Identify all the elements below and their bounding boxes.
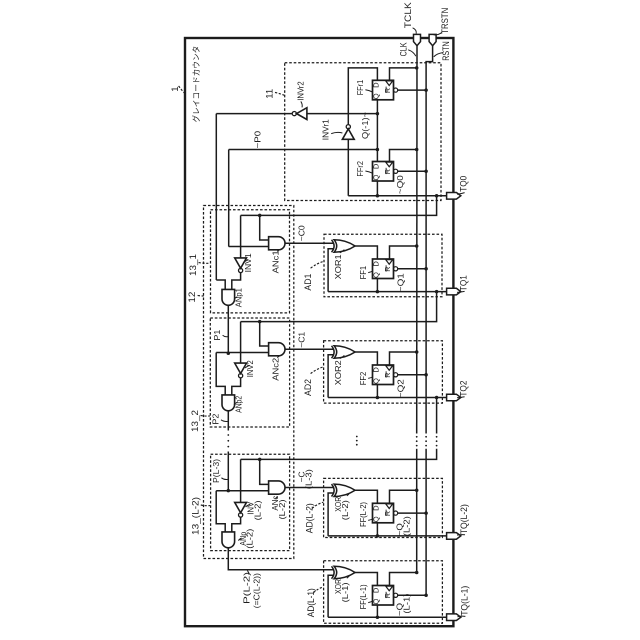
svg-text:(=C(L-2)): (=C(L-2)) (251, 573, 261, 608)
svg-text:FFr2: FFr2 (355, 161, 365, 177)
svg-text:R: R (383, 373, 392, 378)
svg-text:P(L-2): P(L-2) (242, 572, 252, 604)
svg-text:~P0: ~P0 (253, 131, 263, 149)
svg-text:AD2: AD2 (303, 379, 313, 396)
svg-text:TRSTN: TRSTN (440, 8, 450, 34)
svg-text:D: D (371, 261, 380, 267)
svg-text:D: D (371, 587, 380, 593)
svg-text:13_(L-2): 13_(L-2) (191, 497, 201, 535)
svg-text:~C0: ~C0 (297, 225, 307, 241)
svg-text:12: 12 (187, 292, 197, 303)
svg-text:TQ0: TQ0 (459, 176, 469, 192)
svg-text:Q: Q (372, 516, 381, 522)
svg-text:TQ(L-2): TQ(L-2) (459, 504, 469, 534)
svg-text:(L-1): (L-1) (340, 582, 350, 602)
svg-text:D: D (371, 163, 380, 169)
svg-text:TQ2: TQ2 (459, 381, 469, 397)
svg-text:(L-1): (L-1) (402, 593, 412, 613)
svg-text:(L-2): (L-2) (245, 529, 255, 549)
svg-text:R: R (383, 511, 392, 516)
svg-text:(L-2): (L-2) (277, 499, 287, 519)
svg-text:ANc1: ANc1 (271, 250, 281, 273)
svg-text:CLK: CLK (399, 42, 409, 56)
svg-text:AD1: AD1 (303, 274, 313, 291)
svg-text:D: D (371, 505, 380, 511)
svg-text:(L-2): (L-2) (402, 516, 412, 536)
svg-text:13_1: 13_1 (188, 254, 198, 276)
svg-text:TQ(L-1): TQ(L-1) (460, 586, 470, 616)
svg-text:グレイコードカウンタ: グレイコードカウンタ (191, 46, 201, 123)
svg-text:P(L-3): P(L-3) (212, 459, 221, 483)
svg-text:Q: Q (372, 93, 381, 99)
svg-text:D: D (371, 82, 380, 88)
svg-text:AD(L-1): AD(L-1) (306, 588, 316, 617)
svg-text:(L-2): (L-2) (340, 500, 350, 520)
svg-text:~Q0: ~Q0 (395, 175, 405, 194)
svg-text:FFr1: FFr1 (355, 80, 365, 96)
svg-text:P1: P1 (212, 329, 222, 340)
svg-text:FF1: FF1 (358, 266, 368, 280)
svg-text:FF(L-1): FF(L-1) (358, 584, 368, 609)
svg-text:R: R (383, 267, 392, 272)
svg-text:~Q2: ~Q2 (395, 379, 405, 398)
svg-text:FF2: FF2 (358, 372, 368, 386)
svg-text:Q: Q (372, 599, 381, 605)
svg-text:R: R (383, 593, 392, 598)
svg-text:XOR1: XOR1 (333, 254, 343, 279)
svg-text:~C1: ~C1 (297, 332, 307, 348)
svg-text:XOR2: XOR2 (333, 360, 343, 385)
svg-text:TCLK: TCLK (403, 2, 413, 28)
svg-text:Q(-1)~: Q(-1)~ (360, 112, 370, 139)
svg-text:INV1: INV1 (243, 253, 253, 272)
svg-text:INV2: INV2 (245, 360, 255, 377)
svg-text:(L-3): (L-3) (304, 469, 314, 489)
svg-text:Q: Q (372, 175, 381, 181)
svg-text:(L-2): (L-2) (252, 500, 262, 520)
svg-text:R: R (383, 169, 392, 174)
svg-text:ANc2: ANc2 (271, 358, 281, 381)
svg-text:13_2: 13_2 (190, 410, 200, 432)
svg-text:FF(L-2): FF(L-2) (358, 502, 368, 527)
svg-text:INVr1: INVr1 (321, 119, 331, 140)
svg-text:RSTN: RSTN (441, 41, 451, 61)
svg-text:Q: Q (372, 378, 381, 384)
svg-text:TQ1: TQ1 (459, 275, 469, 291)
svg-text:11: 11 (264, 89, 274, 99)
svg-text:Q: Q (372, 272, 381, 278)
svg-text:~Q1: ~Q1 (395, 273, 405, 292)
svg-text:P2: P2 (211, 413, 221, 424)
svg-text:INVr2: INVr2 (296, 81, 306, 101)
svg-text:R: R (383, 88, 392, 93)
svg-text:D: D (371, 367, 380, 373)
